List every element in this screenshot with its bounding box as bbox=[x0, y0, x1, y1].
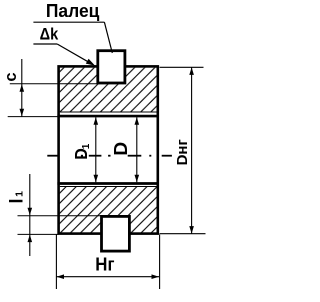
dim c: extension top bbox=[10, 83, 97, 85]
dim l1: extension top bbox=[18, 215, 102, 217]
bore thick line bottom bbox=[57, 182, 159, 185]
dim c: line bbox=[21, 59, 23, 117]
dim Ng: extension left bbox=[55, 235, 57, 290]
leader Палец: underline bbox=[33, 21, 104, 23]
centerline bbox=[47, 155, 172, 157]
body outline bbox=[59, 66, 158, 233]
svg-text:Dнг: Dнг bbox=[174, 139, 191, 165]
hatch top band bbox=[60, 68, 157, 112]
dim l1: line bbox=[29, 174, 31, 256]
svg-text:D: D bbox=[111, 142, 131, 156]
dim l1: extension bottom bbox=[18, 233, 59, 235]
leader Δk: underline bbox=[33, 43, 57, 45]
svg-text:Δk: Δk bbox=[40, 25, 59, 44]
svg-text:1: 1 bbox=[81, 143, 92, 149]
svg-text:c: c bbox=[2, 72, 20, 81]
dim Dng: line bbox=[191, 67, 193, 233]
svg-text:1: 1 bbox=[14, 191, 26, 197]
dim D1: line bbox=[95, 117, 97, 182]
svg-text:Палец: Палец bbox=[46, 1, 100, 21]
bottom pin bbox=[102, 216, 130, 251]
dim Dng: extension top bbox=[160, 66, 204, 68]
svg-text:Нг: Нг bbox=[95, 255, 115, 275]
dim Ng: extension right bbox=[159, 235, 161, 290]
hatch bottom band bbox=[60, 187, 157, 233]
bore thin line top bbox=[60, 111, 157, 113]
dim Dng: extension bottom bbox=[160, 233, 206, 235]
bore thin line bottom bbox=[60, 186, 157, 188]
bore thick line top bbox=[57, 115, 159, 118]
dim D: line bbox=[136, 117, 138, 182]
leader Палец: diagonal bbox=[104, 22, 112, 53]
top pin bbox=[98, 51, 125, 83]
leader Δk: diagonal + arrow bbox=[57, 44, 89, 62]
dim Ng: line bbox=[57, 276, 160, 278]
dim c: extension bottom bbox=[8, 116, 58, 118]
svg-text:l: l bbox=[6, 198, 26, 203]
